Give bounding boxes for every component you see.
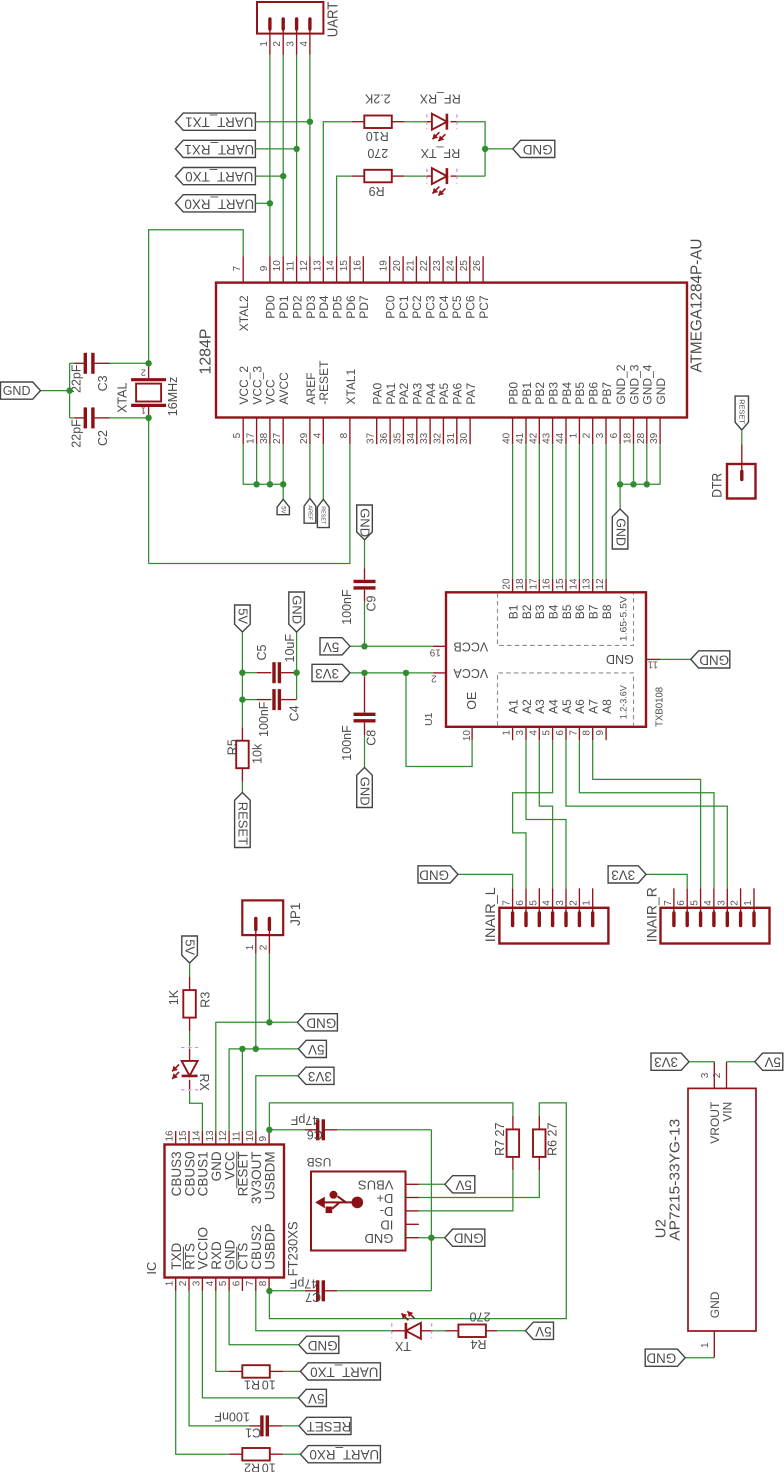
svg-text:AREF: AREF [304, 373, 318, 405]
pin 2 PB6 (ATMEGA) [592, 418, 594, 445]
svg-text:INAIR_R: INAIR_R [644, 887, 659, 942]
wire A3 to INAIR_L pin4 [539, 740, 552, 888]
LED RF_RX [427, 114, 457, 142]
pin 6 GND_2 (ATMEGA) [619, 418, 621, 445]
svg-text:27: 27 [272, 432, 283, 444]
svg-text:1.2-3.6V: 1.2-3.6V [619, 685, 629, 719]
pin 9 A8 (U1) [605, 727, 607, 740]
wire RF_RX cathode to GND [457, 122, 485, 176]
svg-text:4: 4 [312, 432, 323, 438]
svg-text:23: 23 [432, 260, 443, 272]
flag GND (above C9) [357, 505, 373, 540]
svg-text:17: 17 [246, 432, 257, 444]
junction C9/5V [361, 643, 367, 649]
svg-text:12: 12 [218, 1130, 229, 1142]
svg-text:AP7215-33YG-13: AP7215-33YG-13 [667, 1119, 684, 1241]
wire 5V down to C5/C4/R5 [241, 632, 243, 727]
resistor R9 [352, 170, 404, 183]
capacitor C7 [269, 1280, 431, 1301]
svg-text:R10: R10 [366, 129, 389, 143]
svg-text:RF_TX: RF_TX [420, 146, 460, 160]
wire PD5 to R9 [337, 176, 352, 256]
svg-text:37: 37 [366, 432, 377, 444]
wire to GND flag (LEDs) [485, 148, 513, 150]
wire USBDP node [269, 1103, 566, 1319]
svg-text:42: 42 [528, 432, 539, 444]
junction C7/USBDP [266, 1288, 272, 1294]
pin 7 XTAL2 (ATMEGA) [242, 256, 244, 282]
svg-text:GND: GND [613, 518, 627, 546]
svg-text:R2: R2 [244, 1460, 260, 1472]
flag UART_RX0 (bottom) [300, 1446, 380, 1463]
pin 8 USBDP (FT230XS) [268, 1278, 270, 1292]
svg-text:GND: GND [419, 867, 449, 882]
pin 1 A1 (U1) [512, 727, 514, 740]
wire USBDM to R7 top [269, 1103, 513, 1131]
flag UART_TX1 [175, 113, 255, 130]
svg-text:10: 10 [262, 1460, 276, 1472]
svg-text:4: 4 [542, 900, 553, 906]
svg-text:270: 270 [470, 1310, 491, 1324]
svg-text:C4: C4 [288, 705, 302, 721]
svg-text:1: 1 [700, 1342, 711, 1348]
pin 10 OE (U1) [471, 727, 473, 740]
svg-text:100nF: 100nF [257, 701, 271, 737]
wires PB0-PB7 to TXB B1-B8 [512, 444, 514, 579]
svg-text:3: 3 [700, 1072, 711, 1078]
svg-text:25: 25 [459, 260, 470, 272]
flag GND (ATMEGA) [612, 509, 628, 549]
svg-text:PC1: PC1 [397, 295, 411, 319]
svg-text:100nF: 100nF [214, 1410, 250, 1424]
svg-text:28: 28 [636, 432, 647, 444]
svg-text:16: 16 [542, 578, 553, 590]
USB trident icon [315, 1191, 363, 1213]
svg-text:3: 3 [286, 41, 297, 47]
svg-text:USBDM: USBDM [262, 1151, 277, 1200]
svg-text:UART_TX0: UART_TX0 [185, 169, 253, 184]
svg-text:36: 36 [379, 432, 390, 444]
svg-text:R9: R9 [369, 184, 385, 198]
junction JP1 pin1 5V [253, 1046, 259, 1052]
svg-text:15: 15 [555, 578, 566, 590]
pin 9 PD0 (ATMEGA) [269, 256, 271, 282]
svg-text:FT230XS: FT230XS [285, 1221, 300, 1276]
svg-text:12: 12 [299, 260, 310, 272]
capacitor C8 [354, 676, 376, 767]
svg-text:1: 1 [259, 41, 270, 47]
svg-text:20: 20 [502, 578, 513, 590]
svg-text:PA3: PA3 [411, 382, 425, 404]
svg-text:VCC: VCC [264, 379, 278, 405]
svg-text:TX: TX [394, 1339, 411, 1353]
pin 20 B1 (U1) [512, 579, 514, 592]
svg-text:ATMEGA1284P-AU: ATMEGA1284P-AU [689, 239, 706, 373]
svg-text:R7 27: R7 27 [493, 1122, 507, 1155]
svg-text:3V3: 3V3 [611, 867, 635, 882]
svg-text:RF_RX: RF_RX [419, 92, 461, 106]
LED RX [172, 1048, 198, 1090]
junction C5 right [293, 670, 299, 676]
svg-text:2: 2 [712, 1072, 723, 1078]
flag GND (crystal caps) [1, 382, 41, 399]
resistor R10 [352, 116, 404, 129]
svg-text:43: 43 [542, 432, 553, 444]
svg-text:7: 7 [568, 730, 579, 736]
svg-text:9: 9 [258, 1136, 269, 1142]
pin 3 VCCIO (FT230XS) [201, 1278, 203, 1292]
pin 16 PD7 (ATMEGA) [362, 256, 364, 282]
wire UART pin3 / PD2 net UART_RX1 [296, 55, 298, 256]
wire GND flag to caps [41, 390, 70, 392]
junction C5 left [239, 670, 245, 676]
pin 3 PB7 (ATMEGA) [605, 418, 607, 445]
svg-text:1: 1 [502, 730, 513, 736]
svg-text:UART_TX1: UART_TX1 [185, 115, 253, 130]
wire TXD to R2 [176, 1291, 230, 1454]
pin 22 PC3 (ATMEGA) [429, 256, 431, 282]
svg-text:1284P: 1284P [198, 329, 215, 375]
wire FT GND to flag [229, 1291, 299, 1345]
resistor R1 [229, 1365, 283, 1378]
wire UART pin1 / PD0 net UART_RX0 [269, 55, 271, 256]
pin 1 TXD (FT230XS) [175, 1278, 177, 1292]
svg-text:9: 9 [259, 265, 270, 271]
svg-text:PA2: PA2 [397, 382, 411, 404]
pin 43 PB3 (ATMEGA) [552, 418, 554, 445]
wire A6 to INAIR_R pin4 [579, 740, 714, 888]
svg-text:AREF: AREF [306, 505, 312, 521]
connector UART [257, 2, 323, 55]
wire RF_TX cathode to GND node [457, 175, 485, 177]
wire UART pin4 / PD3 net UART_TX1 [309, 55, 311, 256]
dashed group box A side (U1) [498, 673, 634, 726]
flag RESET (bottom) [299, 1417, 351, 1434]
wire VROUT to 3V3 [689, 1061, 714, 1063]
wire R4 to 5V [497, 1330, 526, 1332]
pin 18 GND_3 (ATMEGA) [633, 418, 635, 445]
svg-text:VCCA: VCCA [453, 666, 488, 680]
svg-text:21: 21 [405, 260, 416, 272]
junction JP1 pin2 GND [266, 1019, 272, 1025]
svg-text:17: 17 [528, 578, 539, 590]
pin 17 VCC_3 (ATMEGA) [256, 418, 258, 445]
svg-text:10k: 10k [251, 743, 265, 764]
svg-text:RESET: RESET [307, 1419, 352, 1434]
svg-text:A2: A2 [520, 699, 534, 714]
wire 3V3 flag to INAIR_R pin6 [646, 874, 687, 888]
resistor R2 [229, 1448, 283, 1461]
svg-text:100nF: 100nF [340, 725, 354, 761]
svg-text:10: 10 [262, 1378, 276, 1392]
svg-text:35: 35 [392, 432, 403, 444]
svg-text:PB2: PB2 [533, 382, 547, 405]
junction OE/3V3 [403, 670, 409, 676]
svg-text:47pF: 47pF [289, 1277, 318, 1291]
svg-text:C7: C7 [305, 1290, 321, 1304]
svg-text:XTAL: XTAL [116, 383, 130, 413]
wire 3V3 to VCCA [350, 672, 433, 674]
svg-text:5: 5 [218, 1280, 229, 1286]
wire RTS to C1 [189, 1291, 249, 1426]
svg-text:GND: GND [606, 652, 634, 666]
pin 34 PA3 (ATMEGA) [416, 418, 418, 445]
pin 26 PC7 (ATMEGA) [482, 256, 484, 282]
svg-text:31: 31 [446, 432, 457, 444]
svg-text:1: 1 [743, 900, 754, 906]
svg-text:-RESET: -RESET [317, 360, 331, 405]
svg-text:A1: A1 [506, 699, 520, 714]
pin 19 PC0 (ATMEGA) [389, 256, 391, 282]
svg-text:11: 11 [231, 1131, 242, 1142]
flag 3V3 (U2 out) [651, 1053, 689, 1070]
pin VBUS (USB) [406, 1183, 419, 1185]
wire R9 to LED RF_TX [404, 175, 427, 177]
svg-text:1: 1 [568, 432, 579, 438]
svg-text:PD2: PD2 [290, 295, 304, 319]
svg-text:4: 4 [528, 730, 539, 736]
svg-text:16MHz: 16MHz [166, 377, 180, 417]
svg-text:100nF: 100nF [340, 589, 354, 625]
svg-text:GND: GND [646, 1351, 676, 1366]
pin 5 VCC_2 (ATMEGA) [242, 418, 244, 445]
flag 5V (VCCB) [320, 638, 350, 655]
svg-text:A8: A8 [600, 699, 614, 714]
svg-text:R4: R4 [470, 1337, 486, 1351]
wire JP1 pin2 to GND row [268, 954, 270, 1023]
svg-text:26: 26 [472, 260, 483, 272]
junction C6/USBDM [266, 1127, 272, 1133]
svg-text:OE: OE [465, 692, 479, 710]
pin 11 GND (U1) [646, 658, 660, 660]
svg-text:13: 13 [312, 260, 323, 272]
svg-text:PB5: PB5 [573, 382, 587, 405]
flag GND (LED indicators) [513, 140, 555, 157]
svg-text:14: 14 [568, 578, 579, 590]
pin 15 B5 (U1) [565, 579, 567, 592]
wire flag UART_RX1 to PD2 [255, 148, 296, 150]
svg-text:GND: GND [365, 1231, 394, 1246]
svg-text:16: 16 [352, 260, 363, 272]
svg-text:PB4: PB4 [560, 382, 574, 405]
svg-text:A7: A7 [587, 699, 601, 714]
pin 12 B8 (U1) [605, 579, 607, 592]
junction UART_TX0/PD1 [280, 173, 286, 179]
IC FT230XS body [165, 1145, 285, 1278]
junction crystal pin2 node [145, 360, 151, 366]
svg-text:5V: 5V [308, 1042, 324, 1057]
svg-text:C6: C6 [307, 1128, 323, 1142]
svg-text:1: 1 [582, 900, 593, 906]
capacitor C3 [70, 353, 149, 374]
resistor R4 [445, 1325, 497, 1338]
wire U2 GND to flag [685, 1357, 714, 1359]
dashed group box B side (U1) [498, 593, 634, 645]
wire C6 to C7 (right plates) [430, 1130, 432, 1291]
junction VCC bus 2 [267, 481, 273, 487]
pin 15 CBUS0 (FT230XS) [188, 1131, 190, 1145]
svg-text:PC0: PC0 [384, 295, 398, 319]
svg-text:3: 3 [595, 432, 606, 438]
svg-text:R1: R1 [244, 1378, 260, 1392]
pin 9 USBDM (FT230XS) [268, 1131, 270, 1145]
flag UART_RX0 [175, 195, 255, 212]
svg-text:U1: U1 [423, 712, 435, 726]
svg-text:TXB0108: TXB0108 [654, 687, 666, 727]
svg-text:24: 24 [445, 260, 456, 272]
svg-text:18: 18 [623, 432, 634, 444]
flag 5V (ATMEGA VCC) [277, 499, 289, 514]
svg-text:2: 2 [431, 673, 437, 684]
svg-text:PB7: PB7 [600, 382, 614, 405]
pin 3 VROUT (U2) [713, 1062, 715, 1089]
wire R7 to D- [419, 1170, 513, 1211]
wire A2 to INAIR_L pin3 [526, 740, 566, 888]
svg-text:AVCC: AVCC [277, 372, 291, 405]
wire RXD to R1 [216, 1291, 230, 1371]
resistor R5 [236, 727, 249, 792]
svg-text:2: 2 [141, 368, 146, 378]
pin 5 GND (FT230XS) [228, 1278, 230, 1292]
flag UART_TX0 (bottom) [300, 1363, 380, 1380]
junction USB GND node [428, 1235, 434, 1241]
svg-text:XTAL1: XTAL1 [344, 368, 358, 404]
svg-text:5V: 5V [535, 1324, 551, 1339]
pin 6 A5 (U1) [565, 727, 567, 740]
junction VCC bus 1 [253, 481, 259, 487]
pin 21 PC2 (ATMEGA) [415, 256, 417, 282]
wire flag UART_TX0 to PD1 [255, 175, 283, 177]
wire R6 to D+ [419, 1170, 539, 1197]
svg-text:4: 4 [703, 900, 714, 906]
svg-text:D-: D- [380, 1204, 394, 1219]
svg-text:PD1: PD1 [277, 295, 291, 319]
junction C8/3V3 [361, 670, 367, 676]
junction crystal pin1 node [145, 415, 151, 421]
svg-text:GND_4: GND_4 [641, 364, 655, 404]
pin 35 PA2 (ATMEGA) [402, 418, 404, 445]
svg-text:10: 10 [245, 1130, 256, 1142]
svg-text:C8: C8 [364, 730, 378, 746]
svg-text:USBDP: USBDP [262, 1223, 277, 1270]
svg-text:5V: 5V [279, 506, 285, 513]
svg-text:10uF: 10uF [283, 634, 297, 663]
svg-text:B8: B8 [600, 604, 614, 619]
svg-text:VCC_2: VCC_2 [237, 366, 251, 405]
svg-text:VCC_3: VCC_3 [250, 366, 264, 405]
svg-text:29: 29 [299, 432, 310, 444]
svg-text:PA7: PA7 [464, 382, 478, 404]
svg-text:14: 14 [326, 260, 337, 272]
flag RESET (R5) [235, 793, 251, 848]
connector INAIR_L [499, 888, 608, 943]
svg-text:5: 5 [528, 900, 539, 906]
pin 39 GND (ATMEGA) [659, 418, 661, 445]
svg-text:PD0: PD0 [264, 295, 278, 319]
pin 17 B3 (U1) [538, 579, 540, 592]
svg-text:270: 270 [367, 146, 388, 160]
svg-text:2: 2 [582, 432, 593, 438]
svg-text:8: 8 [582, 730, 593, 736]
pin 40 PB0 (ATMEGA) [512, 418, 514, 445]
svg-text:GND: GND [306, 1015, 336, 1030]
svg-text:PA1: PA1 [384, 382, 398, 404]
wire flag UART_TX1 to PD3 [255, 121, 310, 123]
pin 13 PD4 (ATMEGA) [322, 256, 324, 282]
svg-text:B5: B5 [560, 604, 574, 619]
junction GND bus 2 [630, 481, 636, 487]
svg-text:11: 11 [286, 260, 297, 271]
svg-text:A6: A6 [573, 699, 587, 714]
flag 5V (R5 pullup) [235, 605, 251, 632]
connector DTR [727, 444, 756, 498]
svg-text:2: 2 [730, 900, 741, 906]
svg-text:41: 41 [515, 432, 526, 444]
svg-text:B3: B3 [533, 604, 547, 619]
pin 18 B2 (U1) [525, 579, 527, 592]
pin 7 A6 (U1) [578, 727, 580, 740]
svg-text:PD4: PD4 [317, 295, 331, 319]
IC U ATMEGA1284P-AU body [216, 283, 687, 418]
svg-text:B7: B7 [587, 604, 601, 619]
svg-text:5: 5 [690, 900, 701, 906]
pin 1 PB5 (ATMEGA) [578, 418, 580, 445]
wire XTAL2 to crystal [149, 230, 244, 363]
svg-text:2: 2 [258, 944, 269, 950]
junction GND caps [66, 387, 72, 393]
svg-text:B6: B6 [573, 604, 587, 619]
svg-text:3: 3 [716, 900, 727, 906]
svg-text:PB6: PB6 [587, 382, 601, 405]
capacitor C6 [269, 1119, 431, 1140]
flag 5V (VBUS) [445, 1176, 475, 1193]
svg-text:PB1: PB1 [520, 382, 534, 405]
IC U1 TXB0108 body [446, 592, 646, 727]
svg-text:PB3: PB3 [547, 382, 561, 405]
wire VCC pins bus [243, 444, 283, 484]
flag 3V3 (VCCA) [312, 664, 350, 681]
pin 11 PD2 (ATMEGA) [296, 256, 298, 282]
svg-text:5V: 5V [308, 1391, 324, 1406]
svg-text:VBUS: VBUS [358, 1178, 394, 1193]
pin 15 PD6 (ATMEGA) [349, 256, 351, 282]
svg-text:19: 19 [379, 260, 390, 272]
svg-text:8: 8 [258, 1280, 269, 1286]
pin 20 PC1 (ATMEGA) [402, 256, 404, 282]
wire caps right to GND flag [296, 632, 298, 700]
pin 5 A4 (U1) [552, 727, 554, 740]
wire TX LED to R4 [432, 1330, 446, 1332]
svg-text:B4: B4 [547, 604, 561, 619]
wire JP1 pin1 to 5V row [255, 954, 257, 1049]
junction UART_TX1/PD3 [307, 119, 313, 125]
svg-text:2: 2 [568, 900, 579, 906]
capacitor C2 [70, 407, 149, 428]
wire RESET flag to DTR [741, 430, 743, 444]
wire VBUS to 5V [419, 1183, 445, 1185]
svg-text:18: 18 [515, 578, 526, 590]
pin D+ (USB) [406, 1197, 419, 1199]
svg-text:6: 6 [231, 1280, 242, 1286]
svg-text:22pF: 22pF [70, 419, 84, 448]
pin 8 A7 (U1) [592, 727, 594, 740]
pin 6 CTS (FT230XS) [241, 1278, 243, 1292]
svg-text:A5: A5 [560, 699, 574, 714]
wire GND pins bus [619, 444, 621, 509]
pin 10 3V3OUT (FT230XS) [255, 1131, 257, 1145]
pin 30 PA7 (ATMEGA) [469, 418, 471, 445]
svg-text:A4: A4 [547, 699, 561, 714]
